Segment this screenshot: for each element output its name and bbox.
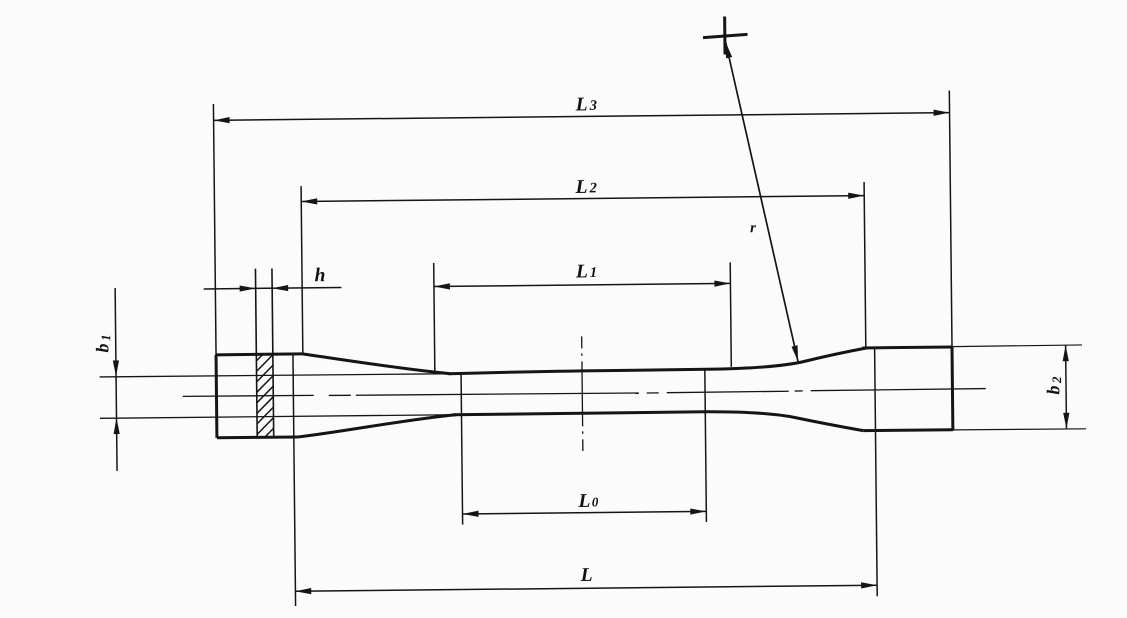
specimen outline: narrow section edges (449, 369, 707, 414)
L2 extension right (864, 182, 866, 347)
specimen outline: left grip tab (216, 354, 303, 438)
L2 arrow right (848, 193, 864, 199)
L1 arrow left (434, 283, 450, 289)
svg-text:L: L (580, 565, 593, 586)
L3 extension right (949, 91, 952, 347)
hatched section band (247, 325, 282, 464)
b1 arrow top (outside, pointing down) (113, 360, 119, 376)
svg-text:L1: L1 (575, 261, 597, 282)
svg-text:L0: L0 (577, 491, 599, 512)
horizontal centreline (dash-dot) (183, 388, 986, 398)
L arrow right (861, 582, 877, 588)
L extension left (tab right edge continued) (293, 354, 296, 606)
L3 arrow left (214, 117, 230, 123)
L2 arrow left (301, 198, 317, 204)
dimension L line (293, 347, 878, 606)
L arrow left (295, 588, 311, 594)
L0 arrow left (462, 511, 478, 517)
vertical centreline (dash-dot) (582, 336, 583, 451)
svg-text:L3: L3 (575, 94, 597, 115)
b2 extension lines (tab edges extended right) (952, 345, 1086, 430)
dimension L1 line (434, 260, 732, 373)
svg-text:L2: L2 (575, 177, 597, 198)
h arrow right (outside, pointing left) (272, 285, 288, 291)
L1 extension left (434, 263, 435, 373)
L extension right (875, 347, 878, 596)
hatch band edge lines (h extensions) (255, 269, 273, 438)
leader arrowhead top (726, 42, 733, 58)
b2 arrow bottom (inside, pointing down) (1063, 413, 1069, 429)
L1 arrow right (714, 280, 730, 286)
b1 extension lines (narrow width extended left) (100, 373, 463, 418)
L3 extension left (213, 104, 216, 355)
b1 arrow bottom (outside, pointing up) (113, 418, 119, 434)
L2 extension left (301, 186, 303, 354)
dimension L2 line (301, 180, 866, 354)
specimen outline: right grip tab (862, 346, 953, 431)
dimension b1 line (115, 288, 117, 471)
L0 extension right (705, 368, 707, 522)
dimension L0 line (461, 368, 706, 524)
leader arrowhead bottom (791, 345, 798, 361)
L0 extension left (461, 373, 463, 525)
dimension b2 line (1065, 345, 1068, 429)
b2 arrow top (inside, pointing up) (1062, 345, 1068, 361)
L1 extension right (730, 262, 731, 366)
centre cross (radius centre mark) (703, 16, 748, 54)
L0 arrow right (690, 508, 706, 514)
svg-text:r: r (750, 220, 756, 236)
h arrow left (outside, pointing right) (240, 285, 256, 291)
specimen outline: left tapers (297, 352, 456, 437)
specimen outline: right tapers (704, 348, 867, 432)
L3 arrow right (934, 110, 950, 116)
dimension L3 line (213, 91, 952, 355)
svg-text:h: h (314, 265, 325, 286)
leader line r (726, 41, 798, 362)
dimension h line (204, 287, 342, 288)
